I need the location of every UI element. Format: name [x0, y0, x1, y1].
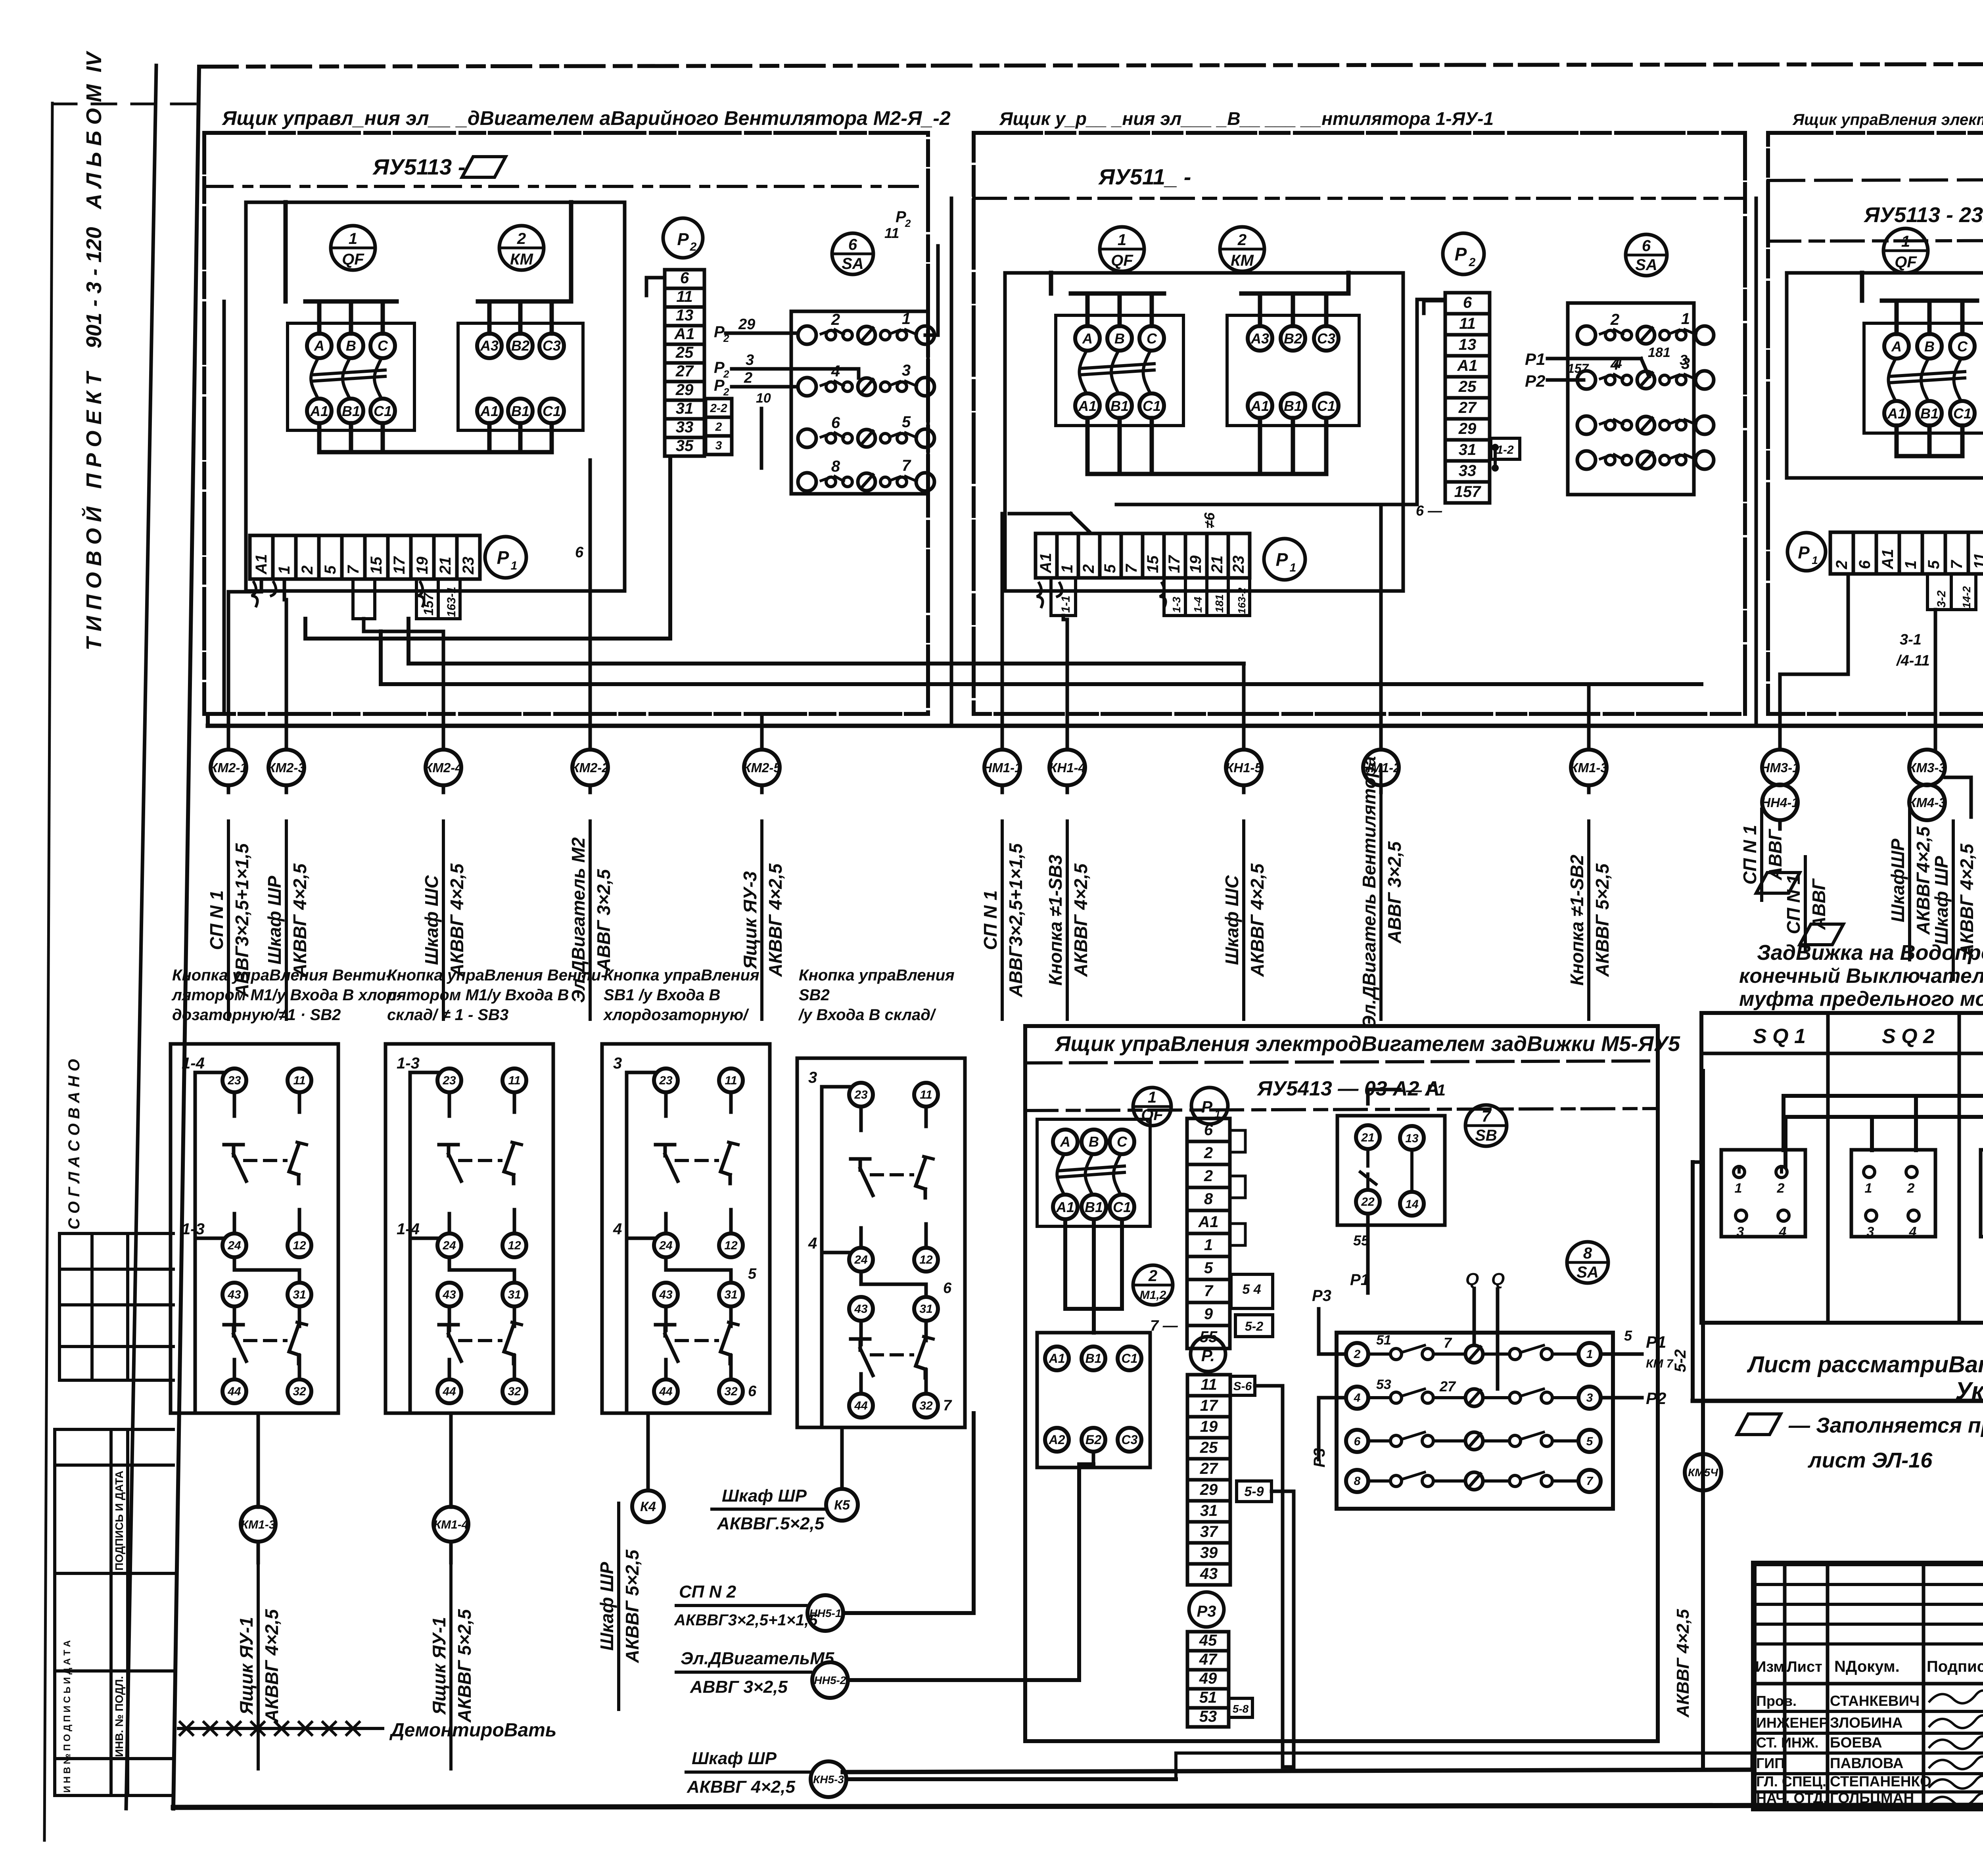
svg-text:КМ1-4: КМ1-4 — [434, 1518, 468, 1531]
svg-text:21: 21 — [437, 557, 454, 575]
svg-text:QF: QF — [342, 251, 364, 268]
svg-text:31: 31 — [1459, 441, 1477, 458]
svg-text:ШкафШР: ШкафШР — [1887, 838, 1908, 922]
svg-text:СТ. ИНЖ.: СТ. ИНЖ. — [1756, 1734, 1818, 1751]
svg-text:В: В — [346, 338, 356, 354]
svg-text:44: 44 — [659, 1385, 673, 1398]
svg-text:Кнопка упраВления: Кнопка упраВления — [799, 967, 955, 984]
svg-text:24: 24 — [854, 1253, 868, 1266]
svg-text:А1: А1 — [1049, 1351, 1065, 1366]
svg-text:ПОДПИСЬ И ДАТА: ПОДПИСЬ И ДАТА — [113, 1471, 125, 1571]
svg-text:1-2: 1-2 — [1496, 443, 1514, 457]
svg-text:7: 7 — [943, 1397, 952, 1414]
svg-text:1: 1 — [1148, 1089, 1156, 1106]
svg-text:1: 1 — [1735, 1181, 1742, 1196]
svg-text:32: 32 — [293, 1385, 306, 1398]
svg-text:Лист рассматриВать соВместно с: Лист рассматриВать соВместно с листами 1… — [1747, 1352, 1983, 1377]
svg-text:НМ3-1: НМ3-1 — [1760, 760, 1799, 775]
svg-text:11: 11 — [920, 1088, 932, 1101]
svg-text:45: 45 — [1199, 1632, 1217, 1649]
svg-text:12: 12 — [919, 1253, 933, 1266]
svg-text:С1: С1 — [1317, 398, 1335, 414]
svg-text:1: 1 — [1812, 554, 1818, 566]
svg-text:СП N 1: СП N 1 — [1783, 875, 1804, 934]
svg-text:С1: С1 — [1122, 1351, 1138, 1366]
svg-text:А1: А1 — [253, 554, 270, 575]
svg-text:Р: Р — [1201, 1097, 1213, 1116]
svg-text:1-1: 1-1 — [1059, 596, 1072, 613]
svg-text:1: 1 — [1290, 561, 1296, 574]
svg-text:КМ: КМ — [1231, 252, 1254, 269]
svg-text:SA: SA — [1635, 256, 1657, 274]
svg-text:6: 6 — [831, 414, 840, 432]
svg-text:25: 25 — [1200, 1439, 1218, 1456]
svg-text:С3: С3 — [1122, 1433, 1138, 1447]
svg-text:17: 17 — [1166, 555, 1183, 573]
svg-text:11: 11 — [676, 288, 693, 305]
svg-text:Р: Р — [677, 230, 689, 249]
svg-text:А2: А2 — [1049, 1433, 1065, 1447]
svg-text:БОЕВА: БОЕВА — [1830, 1734, 1882, 1751]
svg-text:КН5-3: КН5-3 — [813, 1773, 844, 1786]
svg-text:Р.: Р. — [1201, 1346, 1215, 1365]
svg-text:10: 10 — [756, 391, 771, 406]
svg-text:22: 22 — [1361, 1195, 1375, 1208]
svg-text:/у Входа В склад/: /у Входа В склад/ — [798, 1006, 936, 1024]
svg-text:Шкаф ШР: Шкаф ШР — [1931, 856, 1952, 945]
svg-text:11: 11 — [1971, 552, 1983, 569]
svg-text:АКВВГ.5×2,5: АКВВГ.5×2,5 — [717, 1514, 825, 1533]
svg-text:2: 2 — [1354, 1348, 1361, 1361]
svg-text:АВВГ 3×2,5: АВВГ 3×2,5 — [593, 869, 614, 971]
svg-text:Р1: Р1 — [1525, 350, 1545, 368]
svg-text:КМ3-3: КМ3-3 — [1908, 760, 1946, 775]
svg-text:АКВВГ 4×2,5: АКВВГ 4×2,5 — [1673, 1609, 1693, 1718]
svg-text:37: 37 — [1200, 1523, 1218, 1540]
svg-text:НМ1-1: НМ1-1 — [982, 760, 1022, 775]
svg-text:1: 1 — [349, 230, 357, 247]
svg-text:19: 19 — [414, 556, 431, 574]
svg-text:1: 1 — [1586, 1348, 1593, 1361]
svg-text:4: 4 — [613, 1220, 622, 1238]
svg-text:С1: С1 — [374, 403, 392, 419]
svg-text:12: 12 — [508, 1239, 521, 1252]
svg-text:Р: Р — [1276, 549, 1288, 570]
svg-text:Ящик ЯУ-1: Ящик ЯУ-1 — [236, 1617, 257, 1715]
svg-text:7: 7 — [902, 457, 911, 474]
svg-text:С1: С1 — [1953, 405, 1971, 422]
svg-text:32: 32 — [919, 1399, 933, 1412]
svg-text:43: 43 — [442, 1288, 456, 1301]
svg-text:2: 2 — [1237, 231, 1247, 249]
svg-text:АКВВГ3×2,5+1×1,5: АКВВГ3×2,5+1×1,5 — [674, 1611, 818, 1629]
svg-text:А: А — [1060, 1134, 1070, 1150]
svg-text:С1: С1 — [543, 403, 561, 419]
svg-text:С: С — [1147, 330, 1157, 347]
svg-text:Р: Р — [1798, 543, 1810, 562]
svg-text:7 —: 7 — — [1150, 1318, 1178, 1334]
svg-text:Эл.ДВигательМ5: Эл.ДВигательМ5 — [681, 1649, 834, 1668]
svg-text:В1: В1 — [1085, 1351, 1102, 1366]
svg-text:2-2: 2-2 — [710, 402, 727, 415]
svg-text:АКВВГ 4×2,5: АКВВГ 4×2,5 — [1956, 843, 1977, 957]
svg-text:4: 4 — [1909, 1224, 1917, 1239]
svg-text:11: 11 — [1459, 315, 1476, 332]
svg-text:КМ 7: КМ 7 — [1646, 1357, 1674, 1370]
svg-text:29: 29 — [1200, 1481, 1218, 1498]
svg-text:2: 2 — [744, 370, 752, 386]
svg-text:ГЛ. СПЕЦ.: ГЛ. СПЕЦ. — [1756, 1773, 1826, 1790]
svg-text:НН5-2: НН5-2 — [814, 1674, 846, 1686]
svg-text:СП N 1: СП N 1 — [1739, 825, 1760, 885]
svg-text:Т И П О В О Й П Р О Е К Т: Т И П О В О Й П Р О Е К Т 901 - 3 - 120 … — [81, 51, 106, 650]
svg-text:181: 181 — [1213, 594, 1225, 613]
svg-text:15: 15 — [1144, 555, 1162, 573]
svg-text:3: 3 — [1680, 352, 1688, 368]
svg-text:В1: В1 — [1920, 405, 1939, 422]
svg-text:А: А — [314, 338, 324, 354]
svg-text:44: 44 — [442, 1385, 456, 1398]
svg-text:С: С — [378, 338, 388, 354]
svg-text:2: 2 — [1080, 564, 1097, 574]
svg-text:53: 53 — [1199, 1708, 1217, 1725]
svg-text:1-4: 1-4 — [1192, 597, 1204, 613]
svg-text:К4: К4 — [640, 1499, 656, 1514]
svg-text:2: 2 — [715, 420, 722, 434]
svg-text:4: 4 — [831, 363, 840, 380]
svg-text:АКВВГ 5×2,5: АКВВГ 5×2,5 — [622, 1549, 642, 1663]
svg-text:19: 19 — [1200, 1418, 1218, 1435]
svg-text:СП N 2: СП N 2 — [679, 1582, 736, 1602]
svg-text:35: 35 — [676, 437, 694, 455]
svg-text:Изм: Изм — [1755, 1659, 1784, 1675]
svg-text:Шкаф ШС: Шкаф ШС — [421, 875, 442, 965]
svg-text:7: 7 — [1586, 1475, 1594, 1488]
svg-text:Шкаф ШР: Шкаф ШР — [596, 1562, 617, 1651]
svg-text:КМ2-3: КМ2-3 — [267, 760, 305, 775]
svg-text:3-2: 3-2 — [1935, 590, 1948, 608]
svg-text:1-4: 1-4 — [397, 1220, 420, 1238]
svg-text:QF: QF — [1895, 253, 1917, 271]
svg-text:1-3: 1-3 — [1170, 597, 1183, 613]
svg-text:3: 3 — [1737, 1224, 1744, 1239]
svg-text:11: 11 — [884, 225, 899, 241]
svg-text:С3: С3 — [1317, 330, 1335, 347]
svg-text:S-6: S-6 — [1233, 1380, 1252, 1393]
svg-text:25: 25 — [1458, 378, 1477, 395]
svg-text:2: 2 — [299, 566, 316, 575]
svg-text:Ящик ЯУ-3: Ящик ЯУ-3 — [740, 871, 760, 969]
svg-text:лист ЭЛ-16: лист ЭЛ-16 — [1807, 1448, 1933, 1472]
svg-text:АКВВГ4×2,5: АКВВГ4×2,5 — [1913, 826, 1933, 935]
svg-text:5: 5 — [1586, 1435, 1594, 1448]
svg-text:— Р1: — Р1 — [1406, 1082, 1446, 1099]
svg-text:5-2: 5-2 — [1672, 1349, 1689, 1372]
svg-text:8: 8 — [1204, 1190, 1213, 1208]
svg-text:хлордозаторную/: хлордозаторную/ — [603, 1006, 749, 1024]
svg-text:А1: А1 — [1250, 398, 1269, 414]
svg-text:5: 5 — [1204, 1259, 1213, 1277]
svg-text:КМ2-4: КМ2-4 — [424, 760, 462, 775]
svg-text:М1,2: М1,2 — [1140, 1289, 1166, 1302]
svg-text:АВВГ3×2,5+1×1,5: АВВГ3×2,5+1×1,5 — [1005, 843, 1026, 997]
svg-text:27: 27 — [1439, 1378, 1456, 1395]
svg-text:157: 157 — [1567, 361, 1590, 376]
svg-text:31: 31 — [293, 1288, 306, 1301]
svg-text:4: 4 — [1354, 1391, 1361, 1404]
svg-text:11: 11 — [725, 1074, 737, 1087]
svg-text:Шкаф ШС: Шкаф ШС — [1222, 875, 1242, 965]
svg-text:А: А — [1082, 330, 1093, 347]
svg-text:АКВВГ 4×2,5: АКВВГ 4×2,5 — [290, 863, 310, 977]
svg-text:В1: В1 — [342, 403, 360, 419]
svg-text:АКВВГ 4×2,5: АКВВГ 4×2,5 — [765, 863, 786, 977]
svg-text:КМ4-3: КМ4-3 — [1908, 795, 1946, 810]
svg-text:2: 2 — [1777, 1181, 1785, 1196]
svg-text:Р3: Р3 — [1312, 1287, 1331, 1304]
svg-text:С3: С3 — [543, 338, 561, 354]
svg-text:Р2: Р2 — [1646, 1389, 1666, 1408]
svg-text:Р: Р — [714, 377, 725, 394]
svg-text:1: 1 — [276, 566, 293, 574]
svg-text:43: 43 — [1200, 1565, 1218, 1583]
svg-text:Б2: Б2 — [1085, 1433, 1102, 1447]
svg-text:С: С — [1957, 338, 1968, 355]
svg-text:7: 7 — [345, 565, 362, 574]
svg-text:АВВГ 3×2,5: АВВГ 3×2,5 — [690, 1677, 788, 1697]
svg-text:6: 6 — [848, 236, 857, 253]
svg-text:АКВВГ 4×2,5: АКВВГ 4×2,5 — [447, 863, 467, 977]
svg-text:Ящик упраВления электродВигате: Ящик упраВления электродВигателями насос… — [1792, 111, 1983, 129]
svg-text:7: 7 — [1948, 560, 1966, 569]
svg-text:SA: SA — [842, 255, 864, 272]
svg-text:23: 23 — [460, 557, 477, 575]
svg-text:ИНВ. № ПОДЛ.: ИНВ. № ПОДЛ. — [113, 1676, 125, 1757]
svg-text:С1: С1 — [1143, 398, 1161, 414]
svg-text:3: 3 — [613, 1055, 622, 1072]
svg-text:В: В — [1089, 1134, 1099, 1150]
svg-text:49: 49 — [1199, 1670, 1217, 1687]
svg-text:S Q 1: S Q 1 — [1753, 1025, 1806, 1048]
svg-text:12: 12 — [293, 1239, 306, 1252]
svg-text:КМ2-2: КМ2-2 — [571, 760, 609, 775]
svg-text:32: 32 — [724, 1385, 738, 1398]
svg-text:В: В — [1924, 338, 1935, 355]
svg-text:ЯУ511_ -: ЯУ511_ - — [1098, 164, 1191, 189]
svg-text:ДемонтироВать: ДемонтироВать — [389, 1720, 556, 1741]
svg-text:1-3: 1-3 — [182, 1220, 205, 1238]
svg-text:31: 31 — [508, 1288, 521, 1301]
svg-text:6: 6 — [748, 1383, 757, 1400]
svg-text:8: 8 — [831, 458, 840, 475]
svg-text:А1: А1 — [1879, 549, 1897, 570]
svg-text:8: 8 — [1583, 1245, 1592, 1262]
svg-text:11: 11 — [293, 1074, 305, 1087]
svg-text:27: 27 — [1200, 1460, 1218, 1477]
svg-text:53: 53 — [1376, 1377, 1391, 1392]
svg-text:КМ1-3: КМ1-3 — [241, 1518, 276, 1531]
svg-text:6: 6 — [1354, 1435, 1361, 1448]
svg-text:9: 9 — [1204, 1305, 1213, 1323]
svg-text:2: 2 — [1907, 1181, 1915, 1196]
svg-text:КМ: КМ — [510, 251, 534, 268]
svg-text:23: 23 — [659, 1074, 673, 1087]
svg-text:3: 3 — [1586, 1391, 1593, 1404]
svg-text:7: 7 — [1123, 564, 1140, 573]
svg-text:Р2: Р2 — [1525, 372, 1545, 390]
svg-text:NДокум.: NДокум. — [1834, 1658, 1900, 1675]
svg-text:5 4: 5 4 — [1242, 1282, 1261, 1297]
svg-text:АКВВГ 5×2,5: АКВВГ 5×2,5 — [1592, 863, 1613, 977]
svg-text:17: 17 — [391, 556, 408, 574]
svg-text:В2: В2 — [1284, 330, 1302, 347]
svg-text:4: 4 — [1779, 1224, 1787, 1239]
svg-text:5: 5 — [1925, 560, 1943, 569]
svg-text:6 —: 6 — — [1416, 503, 1442, 519]
svg-text:2: 2 — [1204, 1144, 1213, 1162]
svg-text:Q: Q — [1491, 1270, 1505, 1289]
svg-text:ИНЖЕНЕР: ИНЖЕНЕР — [1756, 1715, 1828, 1731]
svg-text:6: 6 — [680, 269, 689, 287]
svg-text:К5: К5 — [834, 1498, 850, 1513]
svg-text:муфта предельного момента ≠5-: муфта предельного момента ≠5-SQ3; ≠5-SQ4 — [1739, 988, 1983, 1011]
svg-text:24: 24 — [442, 1239, 456, 1252]
svg-text:ПАВЛОВА: ПАВЛОВА — [1830, 1755, 1903, 1771]
svg-text:Кнопка упраВления: Кнопка упраВления — [604, 967, 759, 984]
svg-text:А1: А1 — [1887, 405, 1906, 422]
svg-text:3: 3 — [1867, 1224, 1874, 1239]
svg-text:Р3: Р3 — [1311, 1448, 1328, 1467]
svg-text:А1: А1 — [1056, 1199, 1074, 1215]
svg-text:51: 51 — [1376, 1333, 1391, 1348]
svg-text:43: 43 — [854, 1302, 868, 1316]
svg-text:В1: В1 — [1085, 1199, 1103, 1215]
svg-text:14: 14 — [1405, 1198, 1419, 1211]
svg-text:SB2: SB2 — [799, 986, 830, 1004]
svg-text:Лист: Лист — [1787, 1659, 1822, 1675]
svg-text:43: 43 — [227, 1288, 241, 1301]
svg-text:2: 2 — [1833, 560, 1851, 570]
svg-text:6: 6 — [575, 544, 584, 561]
svg-text:В1: В1 — [1284, 398, 1302, 414]
svg-text:СП N 1: СП N 1 — [206, 890, 227, 950]
svg-text:5: 5 — [1101, 564, 1119, 573]
svg-text:КМ1-3: КМ1-3 — [1570, 760, 1607, 775]
svg-text:АКВВГ 4×2,5: АКВВГ 4×2,5 — [1070, 863, 1091, 977]
svg-text:6: 6 — [1204, 1121, 1213, 1139]
svg-text:НАЧ. ОТД.: НАЧ. ОТД. — [1756, 1790, 1827, 1806]
svg-text:Р: Р — [714, 359, 725, 376]
svg-text:АВВГ: АВВГ — [1808, 878, 1829, 930]
svg-text:181: 181 — [1648, 345, 1670, 360]
svg-text:АКВВГ 4×2,5: АКВВГ 4×2,5 — [687, 1777, 795, 1797]
svg-text:А3: А3 — [1250, 330, 1269, 347]
svg-text:23: 23 — [227, 1074, 241, 1087]
svg-text:31: 31 — [1200, 1502, 1218, 1519]
svg-text:SB1 /у Входа В: SB1 /у Входа В — [604, 986, 720, 1004]
svg-text:лятором М1/у Входа В хлор-: лятором М1/у Входа В хлор- — [171, 986, 401, 1004]
svg-text:19: 19 — [1187, 555, 1204, 573]
svg-text:Ящик управл_ния эл__ _дВигате: Ящик управл_ния эл__ _дВигателем аВарийн… — [221, 107, 951, 129]
svg-text:КН1-4: КН1-4 — [1049, 760, 1085, 775]
svg-text:2: 2 — [905, 217, 911, 229]
svg-text:17: 17 — [1200, 1397, 1218, 1414]
svg-text:Р1: Р1 — [1646, 1333, 1666, 1351]
svg-text:31: 31 — [724, 1288, 737, 1301]
svg-text:А1: А1 — [1037, 553, 1055, 574]
svg-text:1-4: 1-4 — [182, 1055, 205, 1072]
svg-text:5: 5 — [1624, 1327, 1632, 1344]
svg-text:3: 3 — [746, 352, 754, 368]
svg-text:Р3: Р3 — [1197, 1603, 1216, 1620]
svg-text:12: 12 — [724, 1239, 738, 1252]
svg-text:11: 11 — [1201, 1376, 1217, 1393]
svg-text:/4-11: /4-11 — [1896, 652, 1930, 669]
svg-text:2: 2 — [517, 230, 526, 247]
svg-text:Р: Р — [714, 323, 725, 341]
svg-text:6: 6 — [1463, 294, 1472, 311]
svg-text:Кнопка упраВления Венти-: Кнопка упраВления Венти- — [172, 967, 391, 984]
svg-text:14-2: 14-2 — [1960, 586, 1973, 608]
svg-text:27: 27 — [675, 363, 694, 380]
svg-text:7: 7 — [1444, 1335, 1452, 1351]
svg-text:13: 13 — [1459, 336, 1477, 353]
svg-text:25: 25 — [675, 344, 694, 361]
svg-text:23: 23 — [854, 1088, 868, 1101]
svg-text:6: 6 — [943, 1280, 952, 1297]
svg-text:ЯУ5113 - 23А2 В /ЯУ5113-03Б2: ЯУ5113 - 23А2 В /ЯУ5113-03Б2 Ж/ — [1863, 203, 1983, 227]
svg-text:лятором М1/у Входа В: лятором М1/у Входа В — [386, 986, 569, 1004]
svg-text:А1: А1 — [310, 403, 328, 419]
svg-text:склад/ ≠ 1 - SB3: склад/ ≠ 1 - SB3 — [387, 1006, 508, 1024]
svg-text:Ящик упраВления электродВига: Ящик упраВления электродВигателем задВиж… — [1054, 1032, 1680, 1056]
svg-text:Указание по приВязке: Указание по приВязке — [1955, 1377, 1983, 1405]
svg-text:5: 5 — [902, 413, 911, 431]
svg-text:2: 2 — [1204, 1167, 1213, 1185]
svg-text:Эл.ДВигатель Вентилятора: Эл.ДВигатель Вентилятора — [1359, 756, 1379, 1028]
svg-text:А1: А1 — [674, 325, 694, 343]
svg-text:Кнопка ≠1-SB3: Кнопка ≠1-SB3 — [1045, 855, 1066, 986]
svg-text:31: 31 — [676, 400, 694, 417]
svg-text:15: 15 — [368, 556, 385, 574]
svg-text:2: 2 — [690, 240, 697, 253]
svg-text:И Н В № П О Д П И С Ь И Д А Т: И Н В № П О Д П И С Ь И Д А Т А — [62, 1640, 73, 1793]
svg-text:АВВГ 3×2,5: АВВГ 3×2,5 — [1384, 841, 1405, 944]
svg-text:Ящик ЯУ-1: Ящик ЯУ-1 — [429, 1617, 449, 1715]
svg-text:8: 8 — [1354, 1475, 1361, 1488]
svg-text:24: 24 — [227, 1239, 241, 1252]
svg-text:СТЕПАНЕНКО: СТЕПАНЕНКО — [1830, 1773, 1931, 1790]
svg-text:QF: QF — [1111, 252, 1133, 269]
svg-text:2: 2 — [1610, 311, 1619, 328]
svg-text:Шкаф ШР: Шкаф ШР — [692, 1749, 777, 1768]
svg-text:Р: Р — [896, 208, 906, 226]
svg-text:АКВВГ 4×2,5: АКВВГ 4×2,5 — [261, 1609, 282, 1723]
svg-text:32: 32 — [508, 1385, 521, 1398]
svg-text:1: 1 — [902, 310, 911, 328]
svg-text:А1: А1 — [1457, 357, 1477, 374]
svg-text:1-3: 1-3 — [397, 1055, 420, 1072]
svg-text:1: 1 — [1902, 560, 1920, 569]
svg-text:С О Г Л А С О В А Н О: С О Г Л А С О В А Н О — [65, 1059, 83, 1230]
svg-text:А1: А1 — [1078, 398, 1097, 414]
svg-text:3: 3 — [902, 362, 911, 379]
svg-text:5: 5 — [322, 565, 339, 574]
svg-text:31: 31 — [919, 1302, 932, 1316]
svg-text:SB: SB — [1475, 1127, 1497, 1144]
svg-text:1: 1 — [1681, 310, 1690, 328]
svg-text:А1: А1 — [480, 403, 499, 419]
